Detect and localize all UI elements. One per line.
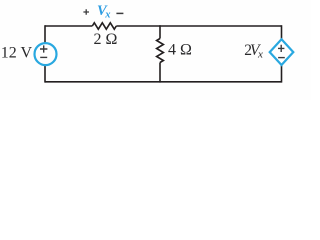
wire left branch lower — [44, 65, 46, 83]
voltage source V1 circle — [35, 43, 57, 65]
wire middle branch lower — [159, 63, 161, 83]
wire bottom — [45, 81, 282, 83]
resistor R1 zigzag 2-ohm — [92, 23, 116, 29]
plus sign above resistor R1 — [83, 9, 89, 15]
svg-text:12 V: 12 V — [1, 45, 33, 62]
svg-text:4 Ω: 4 Ω — [168, 42, 192, 59]
plus sign inside source — [40, 45, 47, 52]
minus sign inside source — [40, 56, 47, 58]
wire middle branch upper — [159, 25, 161, 38]
dependent source U1 diamond — [270, 39, 294, 65]
wire right branch upper — [281, 25, 283, 40]
svg-text:x: x — [104, 10, 110, 21]
wire left branch upper — [44, 25, 46, 43]
plus sign inside diamond — [278, 45, 284, 52]
wire top-right segment — [116, 25, 281, 27]
minus sign above resistor R1 — [116, 12, 123, 14]
wire right branch lower — [281, 64, 283, 83]
minus sign inside diamond — [278, 57, 285, 59]
resistor R2 zigzag 4-ohm vertical — [157, 39, 164, 63]
svg-text:2 Ω: 2 Ω — [94, 31, 118, 48]
svg-text:x: x — [257, 49, 263, 61]
wire top-left segment — [45, 25, 92, 27]
